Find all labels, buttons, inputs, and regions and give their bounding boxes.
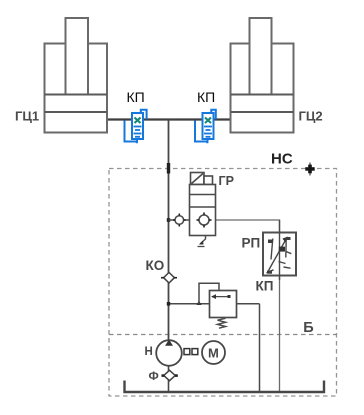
cylinder ГЦ2 (231, 18, 294, 133)
junction dot on main line (167, 302, 170, 306)
svg-text:КП: КП (256, 279, 274, 294)
enclosure НС (dashed border) (109, 169, 337, 397)
motor М (202, 341, 225, 364)
pump Н (156, 340, 182, 366)
wire: tee line to right at y304 (169, 303, 210, 305)
port symbol on ГР inlet wire (173, 214, 186, 227)
junction arrow at pilot takeoff (197, 301, 202, 306)
svg-text:Б: Б (303, 320, 313, 336)
drain arrow below ГР (200, 236, 206, 244)
РП interior symbol (267, 237, 292, 274)
junction: main line crossing dashed border (167, 163, 170, 174)
marker: asterisk on border (305, 163, 314, 176)
svg-text:Н: Н (145, 346, 153, 358)
valve КП1 (blue relief valve, left) (125, 110, 147, 143)
valve РП/КП (pressure regulator box) (263, 233, 296, 276)
svg-text:М: М (208, 346, 219, 361)
svg-text:ГЦ1: ГЦ1 (15, 109, 39, 124)
svg-text:НС: НС (271, 151, 293, 168)
coupling (184, 349, 190, 355)
wire: main vertical line (168, 120, 170, 342)
wire: pilot loop over back-pressure valve (199, 283, 219, 304)
valve КП2 (blue relief valve, right) (195, 110, 216, 143)
svg-text:Ф: Ф (149, 369, 159, 383)
spring below box (218, 318, 226, 328)
junction on main line at ГР port (167, 218, 170, 222)
tank outline (125, 381, 325, 393)
svg-text:ГР: ГР (219, 174, 234, 188)
filter Ф (diamond) (162, 370, 178, 380)
wire: pump to tank (168, 366, 170, 392)
valve ГР (distributor) (190, 173, 216, 236)
wire: ГР left port line (169, 219, 190, 221)
wire: ГР to РП (216, 220, 280, 233)
wire segment through РП box (279, 220, 281, 280)
separator Б (dashed tank line) (109, 334, 337, 336)
svg-text:КП: КП (127, 89, 145, 105)
svg-text:РП: РП (242, 236, 261, 251)
wire: cylinder interconnect pipe (107, 118, 231, 120)
svg-text:КО: КО (146, 258, 165, 273)
check valve КО (diamond on main line) (161, 272, 177, 283)
svg-text:ГЦ2: ГЦ2 (299, 109, 323, 124)
svg-text:КП: КП (197, 89, 215, 105)
cylinder ГЦ1 (45, 18, 108, 133)
wire: right vertical to tank (259, 304, 261, 392)
back-pressure valve (box with spring) (210, 291, 237, 318)
wire: vertical through РП to tank (279, 233, 281, 393)
